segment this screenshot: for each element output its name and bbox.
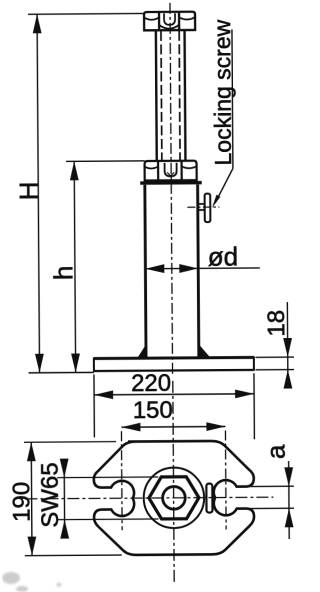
svg-text:h: h	[48, 266, 78, 281]
svg-text:SW65: SW65	[37, 462, 64, 528]
svg-text:Locking screw: Locking screw	[209, 19, 236, 165]
svg-text:190: 190	[8, 482, 35, 522]
svg-text:18: 18	[263, 310, 290, 337]
svg-text:H: H	[14, 181, 44, 200]
svg-text:220: 220	[131, 370, 171, 397]
svg-text:a: a	[261, 444, 291, 459]
svg-text:150: 150	[133, 397, 173, 424]
svg-text:ød: ød	[208, 241, 239, 271]
